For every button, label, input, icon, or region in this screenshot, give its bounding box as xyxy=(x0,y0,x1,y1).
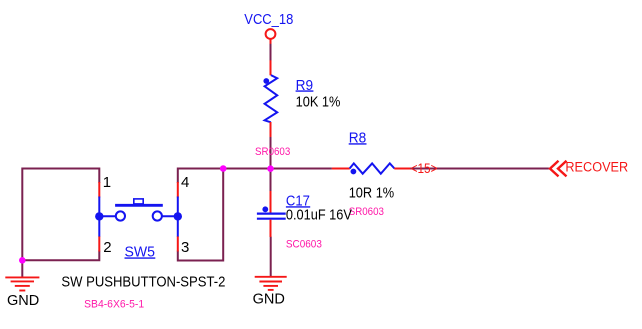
off-page connector chevron xyxy=(550,161,567,177)
svg-text:GND: GND xyxy=(253,291,285,308)
node A junction dot (R9/C17 on main wire) xyxy=(267,165,274,172)
capacitor C17 xyxy=(257,191,286,237)
svg-text:SW PUSHBUTTON-SPST-2: SW PUSHBUTTON-SPST-2 xyxy=(61,274,225,291)
svg-text:GND: GND xyxy=(7,292,39,309)
wire right loop xyxy=(178,169,223,261)
wire R8 to RECOVER xyxy=(410,168,549,170)
svg-text:SB4-6X6-5-1: SB4-6X6-5-1 xyxy=(84,298,144,310)
node B junction dot (right loop top) xyxy=(220,165,227,172)
switch SW5 pushbutton xyxy=(95,182,182,252)
wire VCC to R9 xyxy=(270,44,272,62)
ground symbol left xyxy=(5,277,39,290)
wire node A to R8 xyxy=(223,168,332,170)
label R8 xyxy=(349,129,367,146)
svg-text:4: 4 xyxy=(181,174,189,191)
label C17 xyxy=(286,192,310,209)
resistor R9 xyxy=(263,60,277,137)
wire R9 to node A to C17 xyxy=(270,137,272,192)
node C junction dot (left loop to GND) xyxy=(19,257,26,264)
svg-text:0.01uF 16V: 0.01uF 16V xyxy=(286,206,352,223)
wire C17 to GND xyxy=(270,237,272,278)
ground symbol center xyxy=(255,277,287,290)
label SW5 xyxy=(125,243,156,260)
svg-text:VCC_18: VCC_18 xyxy=(244,11,293,28)
svg-text:2: 2 xyxy=(103,239,111,256)
svg-text:SC0603: SC0603 xyxy=(286,239,322,251)
svg-text:1: 1 xyxy=(103,174,111,191)
svg-text:3: 3 xyxy=(181,239,189,256)
svg-text:<15>: <15> xyxy=(411,160,438,176)
wire GND tap left xyxy=(21,260,23,277)
power symbol VCC_18 xyxy=(266,29,276,44)
label R9 xyxy=(296,77,314,94)
svg-text:10R 1%: 10R 1% xyxy=(349,185,395,202)
wire left loop (top, left, bottom sides) xyxy=(22,169,99,261)
svg-text:SR0603: SR0603 xyxy=(255,146,290,158)
svg-text:10K 1%: 10K 1% xyxy=(296,94,341,111)
svg-text:SR0603: SR0603 xyxy=(349,206,384,218)
svg-text:RECOVER: RECOVER xyxy=(565,160,628,175)
resistor R8 xyxy=(332,163,411,174)
